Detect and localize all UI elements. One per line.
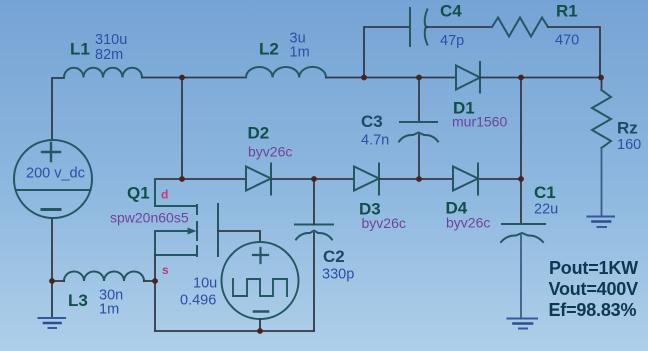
svg-text:200 v_dc: 200 v_dc [26, 166, 85, 182]
node: L3 right / Q1 source [152, 278, 158, 284]
capacitor C4 [410, 8, 427, 46]
node: top rail / C1 branch [518, 75, 524, 81]
svg-text:C3: C3 [361, 112, 383, 131]
inductor L2 [246, 67, 326, 78]
node: top rail / node B [361, 75, 367, 81]
svg-text:R1: R1 [556, 2, 578, 21]
capacitor C3 [399, 122, 438, 142]
node: L3 left [49, 278, 55, 284]
wire: pulse source bottom lead [259, 319, 261, 331]
node: diode rail / C2 [311, 176, 317, 182]
node: diode rail / C3 [416, 176, 422, 182]
wire: C4 to R1 [426, 26, 492, 28]
svg-text:1m: 1m [290, 45, 310, 61]
wire: D1 cathode to rail end [480, 77, 602, 79]
capacitor C2 [295, 225, 333, 240]
node: pulse source / bottom rail [257, 328, 263, 334]
svg-text:330p: 330p [322, 267, 354, 283]
svg-text:Ef=98.83%: Ef=98.83% [549, 300, 637, 320]
wire: C3 top vertical [418, 78, 420, 123]
wire: Rz to ground [601, 148, 603, 215]
ground (C1) [508, 319, 538, 329]
wire: C3 bottom vertical [418, 135, 420, 179]
wire: C1 branch vertical from top rail [520, 78, 522, 225]
svg-text:Q1: Q1 [127, 184, 150, 203]
svg-text:D2: D2 [248, 124, 270, 143]
capacitor C1 [501, 224, 545, 242]
svg-text:C2: C2 [323, 247, 345, 266]
svg-text:L3: L3 [68, 291, 88, 310]
wire: C2 top vertical [313, 179, 315, 225]
node: diode rail / node A [179, 176, 185, 182]
svg-text:L2: L2 [259, 40, 279, 59]
ground (Rz) [588, 217, 615, 228]
svg-text:Vout=400V: Vout=400V [549, 279, 639, 299]
wire: diode rail left segment [155, 178, 245, 180]
diode D2 [246, 164, 271, 195]
wire: C1 bottom to ground [520, 236, 522, 318]
ground (left) [39, 318, 66, 328]
svg-text:d: d [161, 188, 168, 202]
node: diode rail / C1 [518, 176, 524, 182]
svg-text:47p: 47p [440, 33, 464, 49]
wire: D2 to D3 [272, 178, 354, 180]
wire: left vertical top (source V1 to top rail corner) [52, 78, 64, 140]
node: top rail / node A [179, 75, 185, 81]
svg-text:22u: 22u [534, 202, 558, 218]
wire: bottom rail [155, 330, 314, 332]
svg-text:byv26c: byv26c [446, 215, 490, 231]
svg-text:1m: 1m [99, 302, 119, 318]
wire: node A vertical [181, 78, 183, 180]
inductor L3 [64, 272, 144, 282]
diode D3 [354, 164, 379, 195]
pulse source VP [222, 242, 299, 319]
resistor Rz [592, 90, 611, 148]
wire: top rail L1 to L2 [142, 77, 246, 79]
svg-text:s: s [162, 263, 169, 277]
diode D1 [456, 62, 480, 93]
svg-text:0.496: 0.496 [180, 293, 216, 309]
wire: Q1 source down to bottom rail [154, 255, 156, 331]
svg-text:L1: L1 [70, 40, 90, 59]
svg-text:10u: 10u [193, 276, 217, 292]
wire: L2 to D1 anode [326, 77, 456, 79]
wire: gate lead to pulse source [218, 231, 260, 242]
diode D4 [453, 164, 478, 195]
transistor Q1 (MOSFET) [155, 179, 218, 256]
wire: left vertical below source to ground [51, 218, 53, 317]
svg-text:mur1560: mur1560 [452, 114, 507, 130]
svg-text:4.7n: 4.7n [361, 133, 389, 149]
svg-text:Pout=1KW: Pout=1KW [549, 258, 638, 278]
svg-text:byv26c: byv26c [248, 144, 292, 160]
wire: L3 right lead [144, 280, 155, 282]
svg-text:C1: C1 [534, 183, 556, 202]
svg-text:160: 160 [617, 137, 641, 153]
svg-text:C4: C4 [440, 2, 462, 21]
wire: D3 to D4 [380, 178, 453, 180]
resistor R1 [492, 18, 548, 37]
wire: L3 left lead [52, 280, 64, 282]
svg-text:82m: 82m [95, 47, 123, 63]
voltage source V1 (200 v_dc) [14, 140, 92, 218]
wire: D4 to C1 branch [480, 178, 521, 180]
wire: rail junction down to Rz [601, 78, 603, 91]
node: top rail end / Rz [598, 75, 604, 81]
svg-text:Rz: Rz [617, 119, 638, 138]
svg-text:470: 470 [555, 33, 579, 49]
wire: R1 to right corner down to rail [548, 27, 600, 78]
wire: C2 bottom vertical [313, 233, 315, 331]
svg-text:spw20n60s5: spw20n60s5 [110, 210, 189, 226]
Q1 arrowhead [188, 228, 197, 235]
wire: node B up to C4 branch [364, 27, 410, 78]
inductor L1 [64, 68, 142, 78]
node: top rail / C3 [416, 75, 422, 81]
svg-text:310u: 310u [95, 32, 127, 48]
svg-text:byv26c: byv26c [362, 215, 406, 231]
